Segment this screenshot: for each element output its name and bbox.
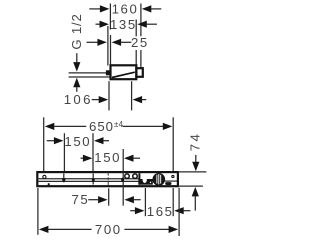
bracket knob side view <box>136 68 142 77</box>
dim 25 right arrow <box>112 39 122 46</box>
dim 150a right arrow <box>94 137 104 144</box>
dim 135 left arrow <box>96 23 101 25</box>
dim 150b left arrow <box>81 157 85 159</box>
node 700 right extension line <box>178 188 180 236</box>
dim 150a left arrow <box>47 140 55 142</box>
pipe upper line <box>69 72 110 74</box>
holder white dot <box>150 182 152 184</box>
node body front extension line upper <box>135 20 137 37</box>
svg-text:75: 75 <box>71 192 89 207</box>
dim 165 left arrow <box>130 210 136 212</box>
svg-text:700: 700 <box>95 222 122 237</box>
bar marker line mid <box>92 174 94 185</box>
indicator ring large <box>133 174 138 179</box>
node wall plate extension line <box>107 26 109 66</box>
dim 75 right arrow <box>124 196 133 203</box>
bar funnel marker <box>62 178 66 182</box>
shower holder cup <box>138 179 152 185</box>
node 74 top extension line <box>178 171 206 173</box>
svg-text:135: 135 <box>110 17 137 32</box>
node 700 left extension line <box>37 188 39 235</box>
bar small stud <box>48 183 50 185</box>
dim 74 up arrow <box>192 187 199 197</box>
right panel slot <box>165 182 171 185</box>
dim 150b right arrow <box>124 155 134 162</box>
dim 74 down arrow <box>195 155 197 163</box>
bracket wall tab <box>106 70 111 75</box>
node knob front extension line upper <box>140 4 142 37</box>
bar dashed centerline <box>107 173 109 187</box>
bar marker line right (extends to 150b and 75) <box>122 171 124 205</box>
node rear extension line lower <box>110 35 112 65</box>
svg-text:165: 165 <box>147 204 174 219</box>
bracket diagonal detail <box>112 72 135 77</box>
svg-text:25: 25 <box>131 35 149 50</box>
node 106 left extension line <box>108 81 110 110</box>
node body front extension line lower <box>135 50 137 65</box>
node 150b right extension line <box>122 149 124 171</box>
dim 135 right arrow <box>137 21 147 28</box>
node knob front extension line lower <box>140 50 142 68</box>
node 75 left extension line <box>108 188 110 205</box>
node rear extension line upper (bracket back) <box>109 4 111 30</box>
G 1/2 down arrow <box>76 53 78 63</box>
panel divider <box>138 173 140 184</box>
bar marker blob mid <box>92 178 95 182</box>
svg-text:150: 150 <box>64 134 91 149</box>
G 1/2 up arrow <box>73 78 80 88</box>
bar left screw hole <box>43 175 46 178</box>
pipe lower line <box>69 76 110 78</box>
select knob <box>152 173 165 186</box>
node 150a left extension line <box>63 133 65 171</box>
dim 75 left arrow <box>88 199 99 201</box>
indicator ring small <box>125 174 130 179</box>
bar middle rail line right segment <box>165 180 177 182</box>
svg-text:150: 150 <box>94 150 121 165</box>
dim 700 left arrow <box>39 226 49 233</box>
node 650 left extension line <box>43 117 45 171</box>
dim 165 right arrow <box>174 207 184 214</box>
dim 700 right arrow <box>124 228 169 230</box>
svg-text:106: 106 <box>64 92 93 107</box>
dim 650 left arrow <box>45 123 55 130</box>
svg-text:74: 74 <box>188 132 203 151</box>
bar rail groove upper line <box>38 178 139 180</box>
node 150a right extension line <box>92 133 94 171</box>
bracket body side view <box>111 65 137 79</box>
node 165 left extension line <box>144 188 146 216</box>
dim 106 left arrow <box>92 99 100 101</box>
dim 25 left arrow <box>87 41 98 43</box>
node 74 bottom extension line <box>178 185 203 187</box>
wall bar front view body <box>37 172 178 186</box>
node 106 right extension line <box>131 81 133 110</box>
bar funnel marker stem <box>63 174 65 179</box>
dim 106 right arrow <box>133 96 143 103</box>
node 165 right extension line <box>172 188 174 216</box>
dim 160 left arrow <box>89 8 101 10</box>
bar marker blob right <box>121 178 124 182</box>
right panel screw ring <box>172 175 174 177</box>
svg-text:G 1/2: G 1/2 <box>69 13 84 49</box>
bar rail groove lower line <box>38 180 139 182</box>
dim 650 right arrow <box>123 125 164 127</box>
node 650 right extension line <box>172 117 174 171</box>
svg-text:160: 160 <box>112 2 139 17</box>
dim 160 right arrow <box>142 5 152 12</box>
